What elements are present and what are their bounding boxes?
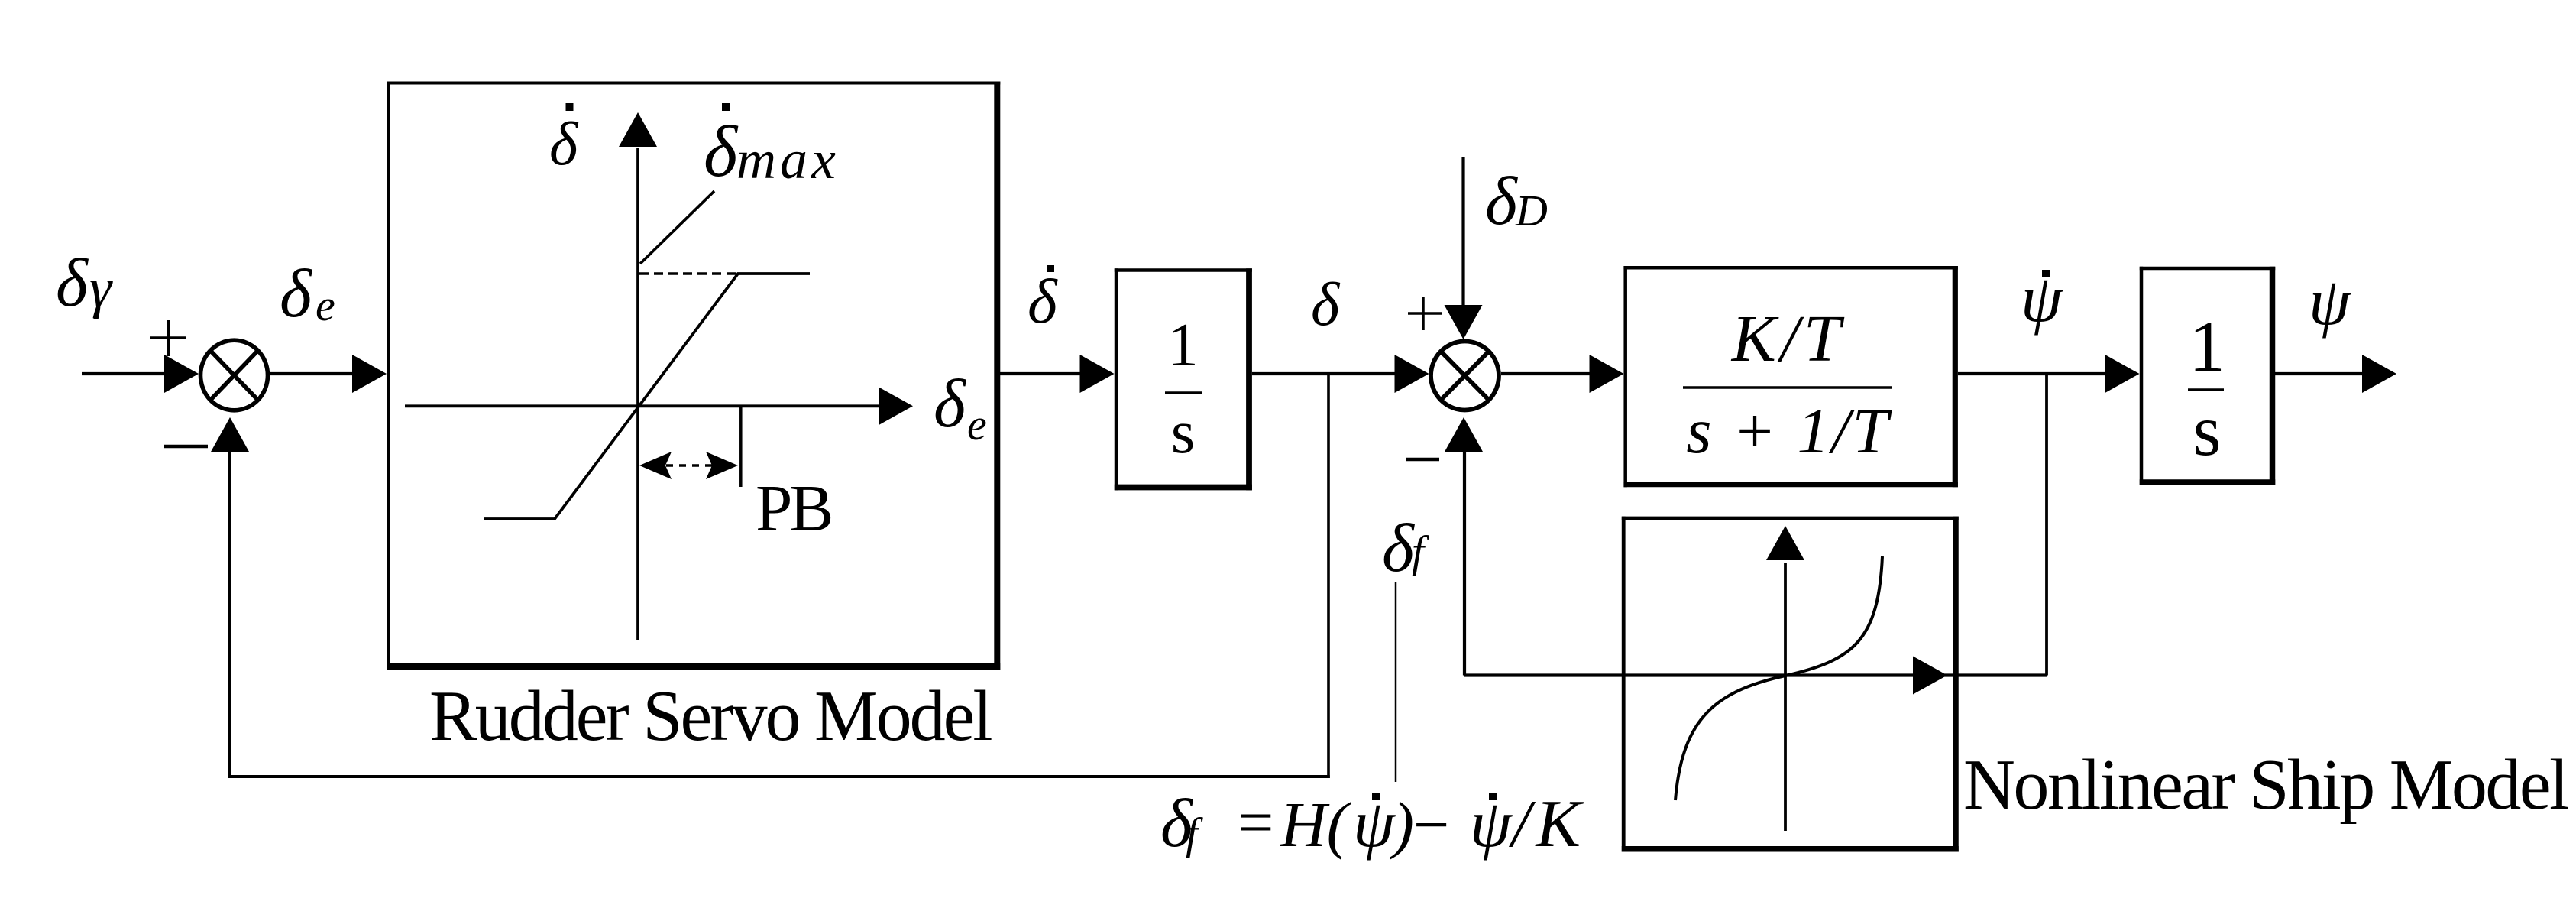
svg-text:γ: γ	[89, 257, 113, 319]
svg-text:δ: δ	[1027, 266, 1058, 336]
svg-text:): )	[1390, 790, 1414, 861]
svg-text:δ: δ	[280, 256, 313, 332]
svg-text:D: D	[1515, 186, 1548, 235]
svg-text:δ: δ	[1485, 164, 1519, 239]
svg-text:/K: /K	[1508, 787, 1586, 861]
svg-text:δ: δ	[1382, 511, 1416, 586]
svg-text:−: −	[1413, 790, 1449, 861]
svg-text:δ: δ	[56, 245, 89, 321]
svg-text:s + 1/T: s + 1/T	[1686, 395, 1892, 467]
svg-text:H(: H(	[1280, 790, 1352, 861]
svg-text:δ: δ	[934, 366, 967, 442]
svg-text:K/T: K/T	[1730, 301, 1846, 375]
svg-text:e: e	[316, 281, 335, 330]
svg-text:δ: δ	[704, 111, 739, 192]
svg-text:s: s	[1171, 397, 1196, 466]
svg-text:1: 1	[2189, 306, 2225, 387]
svg-text:PB: PB	[756, 471, 830, 545]
svg-text:e: e	[967, 400, 987, 449]
svg-text:max: max	[736, 129, 840, 190]
svg-text:s: s	[2193, 390, 2222, 471]
svg-text:Nonlinear Ship Model: Nonlinear Ship Model	[1963, 745, 2568, 825]
svg-text:Rudder Servo Model: Rudder Servo Model	[429, 676, 992, 756]
svg-text:δ: δ	[1311, 271, 1341, 339]
svg-text:ψ: ψ	[2309, 265, 2351, 339]
svg-text:1: 1	[1167, 310, 1199, 379]
svg-text:=: =	[1238, 787, 1273, 858]
svg-text:δ: δ	[549, 111, 579, 178]
